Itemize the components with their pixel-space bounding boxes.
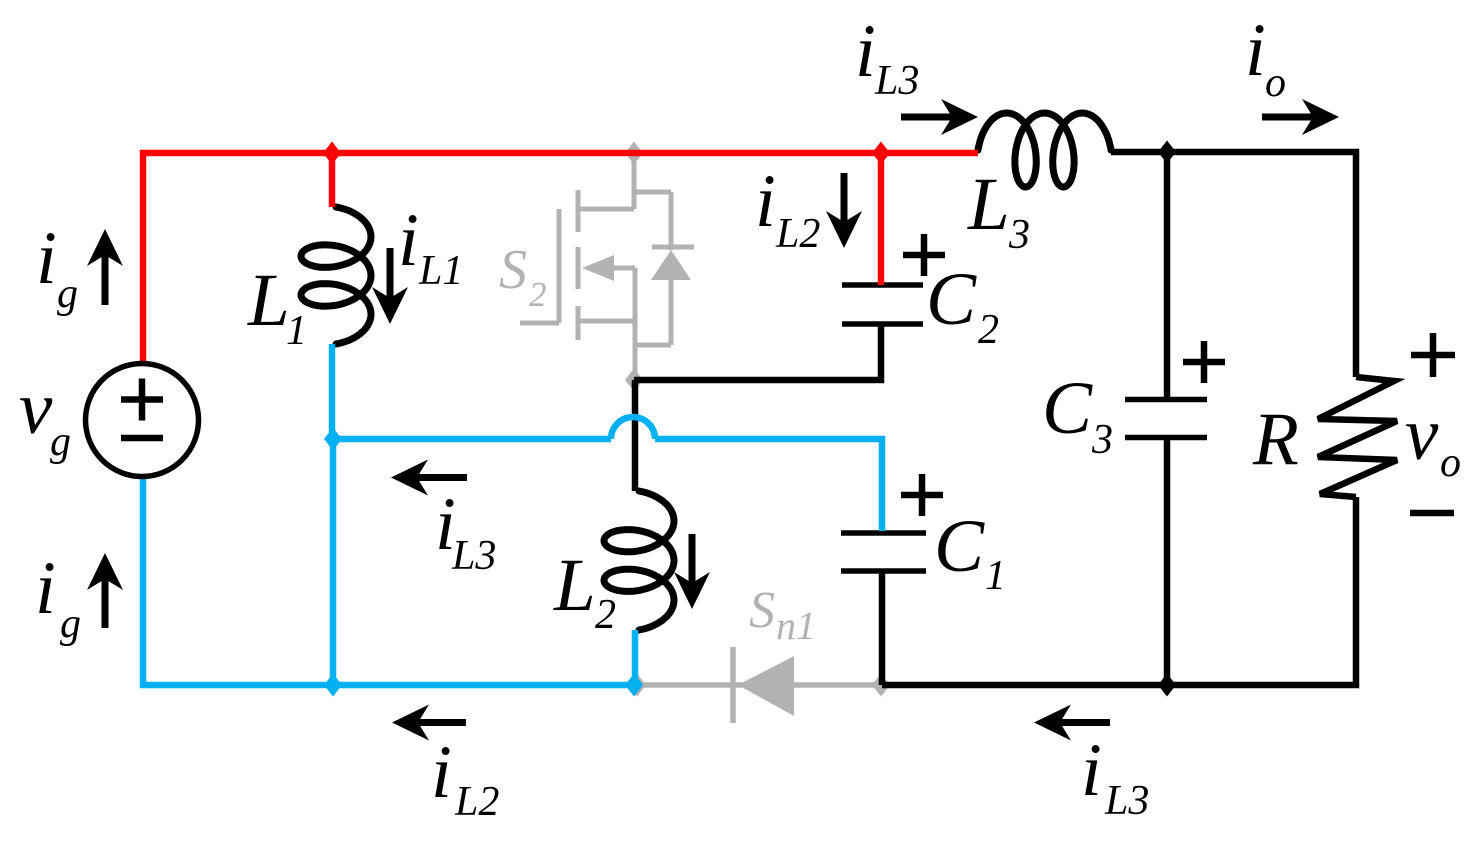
svg-text:L2: L2 [775,211,820,257]
svg-text:i: i [1081,729,1102,812]
svg-text:L: L [967,163,1010,246]
svg-text:i: i [36,217,57,300]
svg-text:2: 2 [529,275,547,314]
svg-text:L: L [247,259,290,342]
svg-text:g: g [60,601,81,647]
svg-text:g: g [50,419,71,465]
svg-text:2: 2 [595,592,616,638]
svg-text:L: L [553,544,596,627]
svg-text:i: i [1245,9,1266,92]
svg-text:i: i [431,731,452,814]
svg-text:o: o [1440,440,1461,486]
svg-text:L3: L3 [451,533,496,579]
svg-text:L2: L2 [454,779,499,825]
svg-text:3: 3 [1091,417,1113,463]
svg-text:C: C [1042,367,1093,450]
svg-text:1: 1 [286,308,307,354]
svg-text:i: i [855,10,876,93]
svg-text:L1: L1 [418,248,463,294]
svg-text:S: S [499,239,527,301]
svg-text:S: S [749,582,775,639]
svg-text:n1: n1 [776,603,816,648]
svg-text:L3: L3 [874,58,919,104]
svg-text:i: i [398,199,419,282]
svg-text:v: v [19,367,53,450]
svg-text:L3: L3 [1104,778,1149,824]
svg-text:v: v [1405,393,1439,476]
svg-text:R: R [1252,398,1299,481]
svg-text:o: o [1265,60,1286,106]
svg-text:C: C [926,258,977,341]
svg-text:3: 3 [1008,212,1030,258]
svg-text:g: g [57,271,78,317]
svg-text:C: C [934,505,985,588]
svg-text:2: 2 [978,307,999,353]
svg-text:1: 1 [985,553,1006,599]
svg-text:i: i [755,160,776,243]
svg-text:i: i [35,547,56,630]
